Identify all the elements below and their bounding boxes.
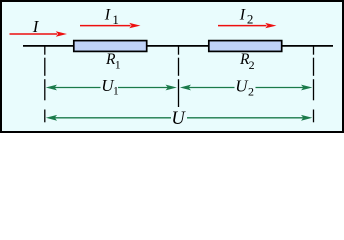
svg-text:I: I — [239, 6, 246, 23]
svg-text:2: 2 — [247, 12, 254, 27]
svg-text:U: U — [171, 109, 186, 129]
svg-text:I: I — [104, 6, 111, 23]
svg-text:1: 1 — [113, 85, 119, 97]
svg-text:1: 1 — [112, 12, 119, 27]
svg-text:2: 2 — [249, 58, 255, 72]
svg-text:1: 1 — [115, 59, 121, 71]
svg-text:2: 2 — [248, 84, 254, 98]
